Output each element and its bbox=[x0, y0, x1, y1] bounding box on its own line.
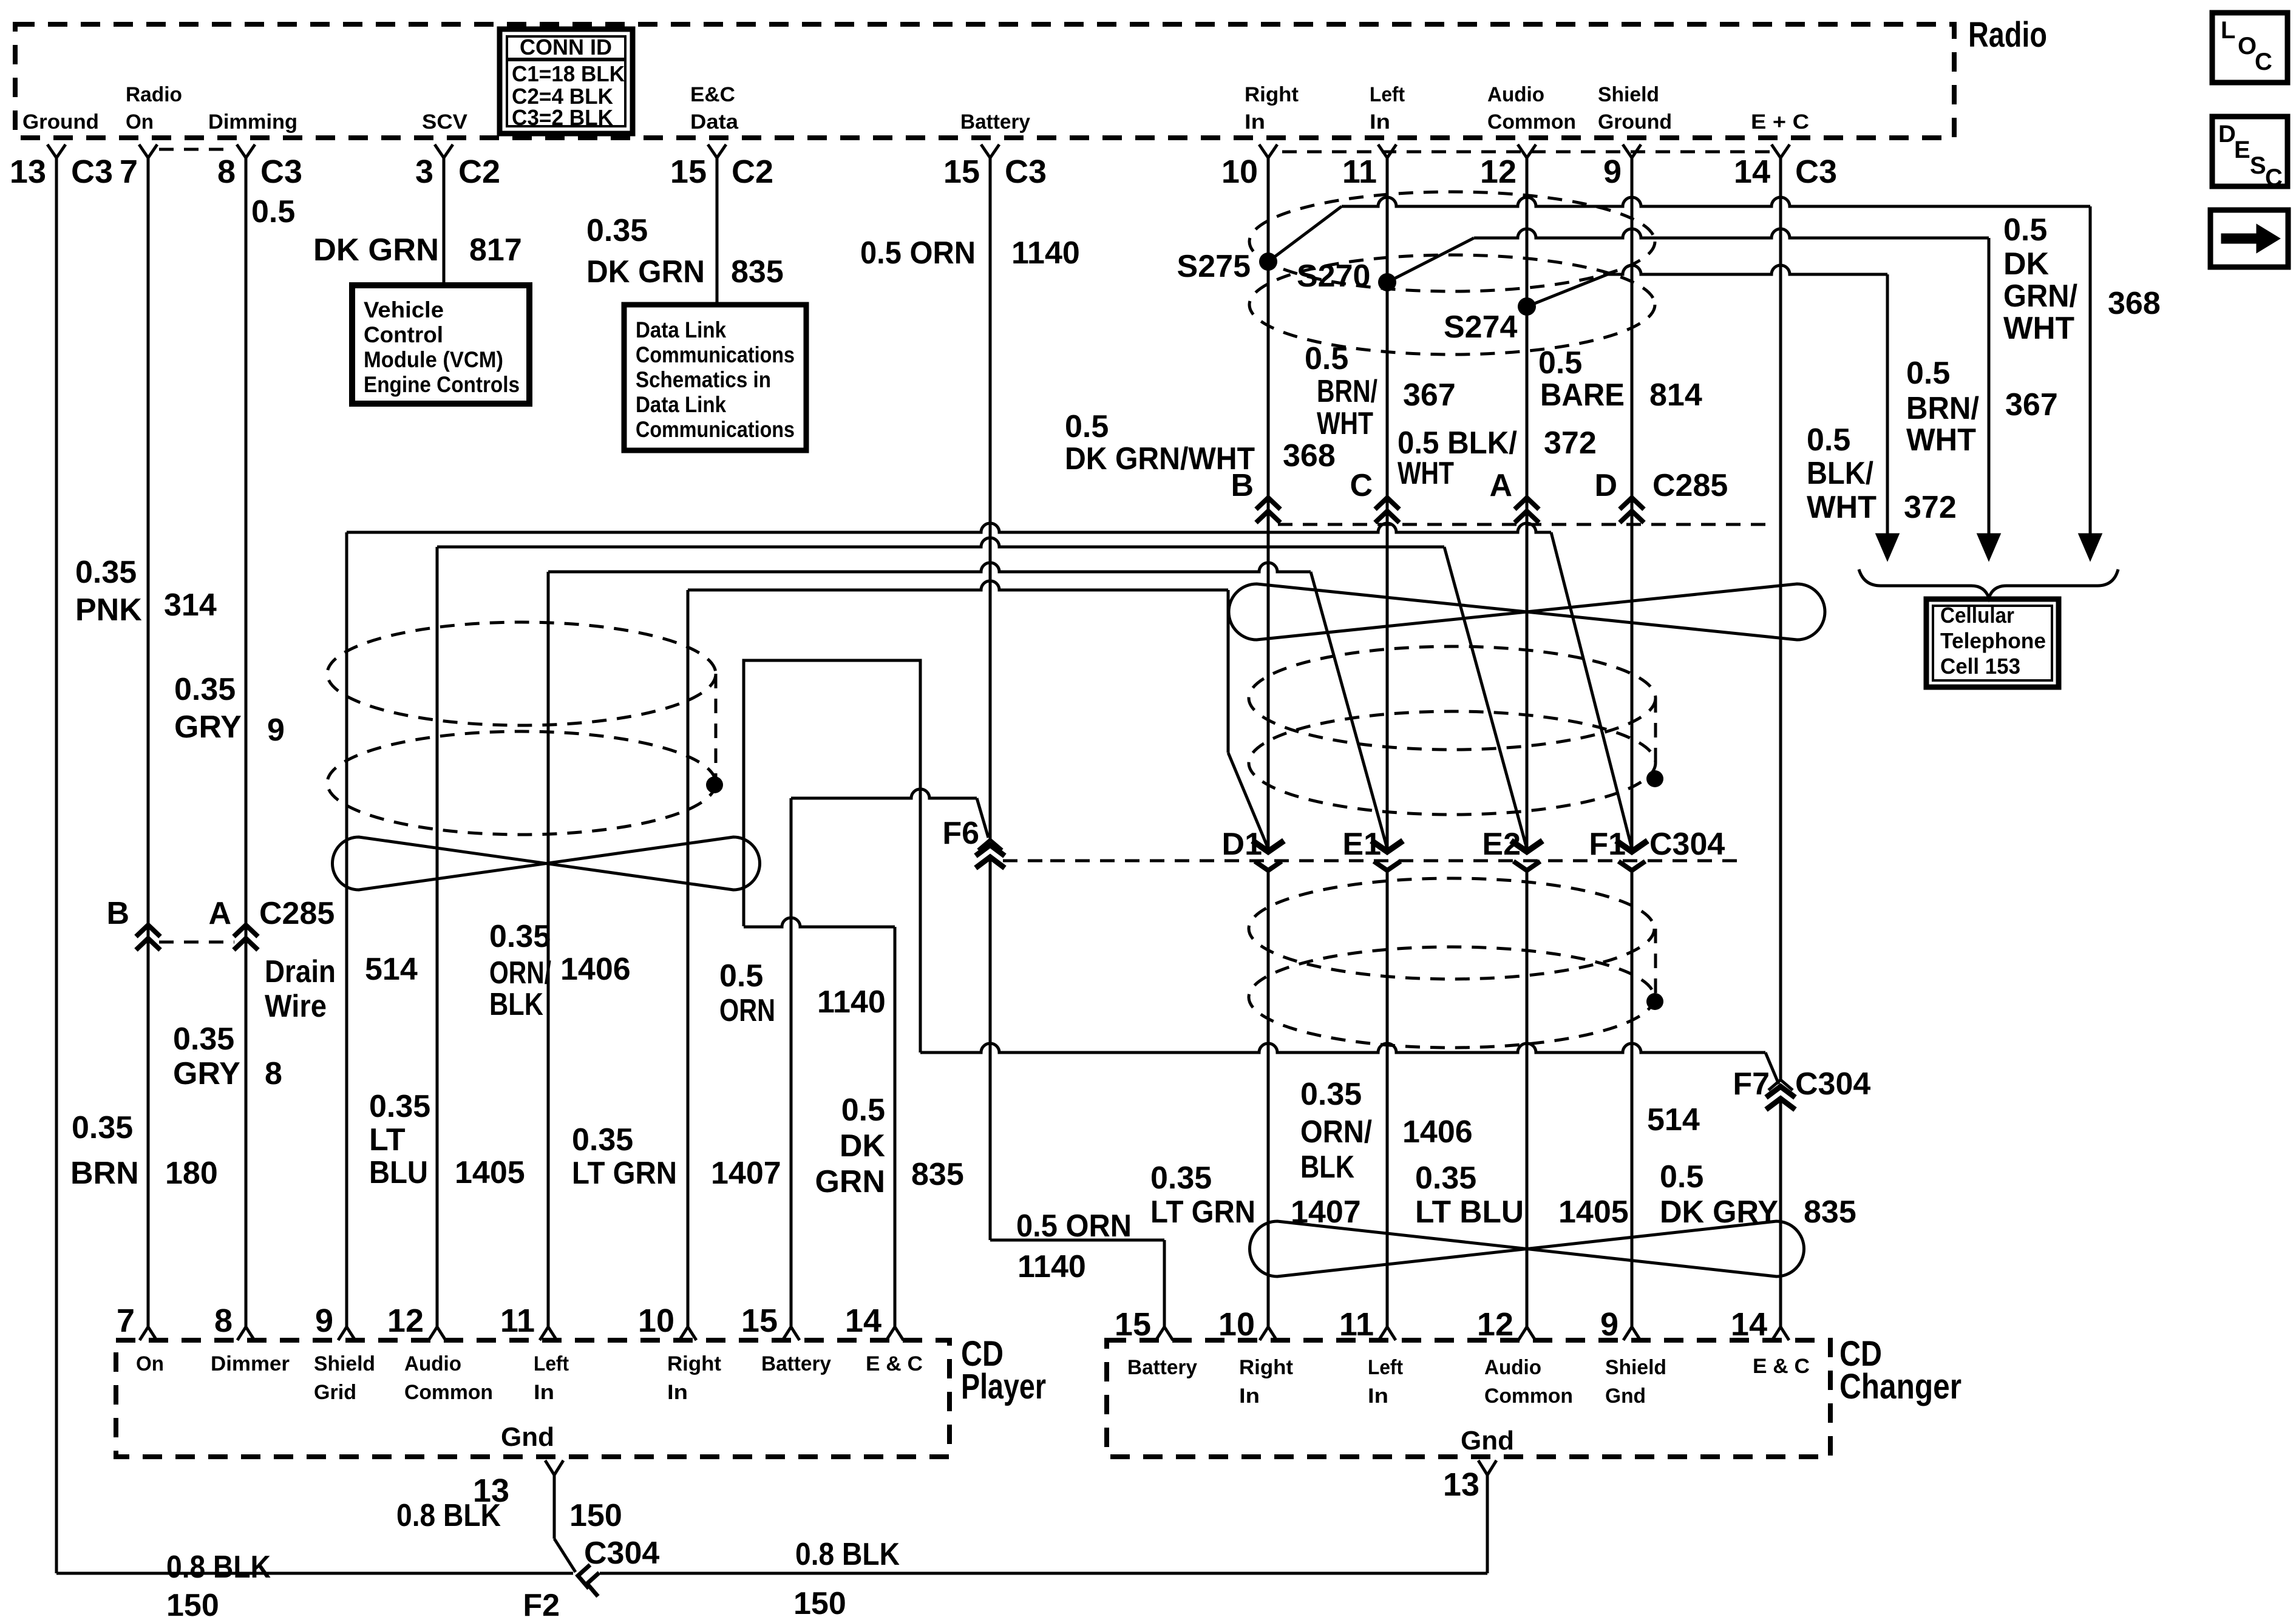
svg-text:1140: 1140 bbox=[1011, 236, 1080, 271]
radio pin 10 at x=2089 bbox=[1259, 144, 1277, 158]
svg-text:814: 814 bbox=[1649, 378, 1702, 413]
wire E&C Data 0.35 DK GRN 835 bbox=[716, 157, 719, 305]
connector F2 bbox=[578, 1565, 590, 1588]
svg-text:On: On bbox=[136, 1352, 164, 1375]
svg-text:GRN/: GRN/ bbox=[2003, 279, 2077, 314]
svg-text:DK: DK bbox=[2003, 246, 2050, 282]
svg-text:C2: C2 bbox=[732, 154, 773, 190]
bus right-in wire (1407) to CD pin 10 bbox=[688, 581, 1228, 590]
arrowhead BLK/WHT wire bbox=[1877, 534, 1898, 560]
svg-text:0.35: 0.35 bbox=[489, 919, 551, 954]
svg-text:7: 7 bbox=[117, 1303, 135, 1339]
svg-text:In: In bbox=[534, 1381, 554, 1404]
wire Radio On to CD pin 7 bbox=[147, 157, 150, 1327]
shield cylinder left (dashed) bbox=[327, 622, 716, 725]
svg-text:367: 367 bbox=[2005, 387, 2058, 422]
svg-text:Vehicle: Vehicle bbox=[364, 297, 444, 322]
svg-text:E & C: E & C bbox=[866, 1352, 923, 1375]
svg-text:DK: DK bbox=[840, 1128, 886, 1164]
twisted pair symbol (radio audio pair) bbox=[1229, 584, 1825, 640]
svg-text:368: 368 bbox=[2108, 286, 2161, 321]
svg-text:9: 9 bbox=[1603, 154, 1622, 190]
svg-text:A: A bbox=[1489, 468, 1512, 503]
connector C304 cavity E2 bbox=[1511, 841, 1543, 852]
svg-text:S: S bbox=[2250, 152, 2266, 179]
svg-text:E + C: E + C bbox=[1751, 110, 1809, 134]
svg-text:Changer: Changer bbox=[1839, 1367, 1961, 1406]
svg-text:Battery: Battery bbox=[1127, 1356, 1197, 1379]
svg-text:LT GRN: LT GRN bbox=[572, 1156, 677, 1191]
svg-text:14: 14 bbox=[1734, 154, 1770, 190]
brace over cellular telephone bbox=[1859, 569, 2118, 598]
svg-text:BLU: BLU bbox=[369, 1155, 428, 1190]
svg-text:11: 11 bbox=[1342, 154, 1377, 190]
CONN ID box bbox=[500, 29, 633, 134]
svg-text:8: 8 bbox=[217, 154, 236, 190]
svg-text:15: 15 bbox=[741, 1303, 778, 1339]
svg-text:9: 9 bbox=[315, 1303, 333, 1339]
splice S275 bbox=[1259, 253, 1277, 271]
svg-text:817: 817 bbox=[469, 232, 522, 268]
svg-text:0.5: 0.5 bbox=[1807, 422, 1850, 458]
wire left in C304 to CD changer bbox=[1386, 870, 1389, 1327]
svg-text:0.5: 0.5 bbox=[1906, 356, 1950, 391]
svg-text:CONN ID: CONN ID bbox=[520, 35, 612, 59]
CD player pin 15 bbox=[783, 1327, 800, 1340]
CD changer pin 9 bbox=[1623, 1327, 1640, 1340]
svg-text:GRY: GRY bbox=[174, 710, 242, 745]
svg-text:835: 835 bbox=[911, 1157, 964, 1192]
arrowhead DK GRN/WHT wire bbox=[2079, 534, 2101, 560]
wire E&C F7 to CD changer pin 14 bbox=[1779, 1099, 1782, 1327]
svg-text:Schematics in: Schematics in bbox=[636, 367, 771, 392]
svg-text:C285: C285 bbox=[259, 896, 335, 931]
svg-text:DK GRN: DK GRN bbox=[313, 232, 439, 268]
svg-text:1140: 1140 bbox=[817, 985, 886, 1020]
wire from S270 (0.5 BRN/WHT 367) bbox=[1387, 238, 1474, 282]
svg-text:Common: Common bbox=[404, 1381, 493, 1404]
connector F6 bbox=[978, 839, 1002, 850]
svg-text:Ground: Ground bbox=[22, 110, 99, 134]
svg-text:1406: 1406 bbox=[1402, 1114, 1473, 1150]
svg-text:Audio: Audio bbox=[1484, 1356, 1541, 1379]
svg-text:D1: D1 bbox=[1222, 827, 1262, 862]
radio pin 15 at x=1631 bbox=[981, 144, 999, 158]
svg-text:Shield: Shield bbox=[1598, 83, 1659, 106]
splice S270 bbox=[1378, 273, 1396, 291]
wire Ground 0.8 BLK 150 bbox=[55, 157, 58, 1573]
svg-text:14: 14 bbox=[845, 1303, 881, 1339]
wire audio common C304 to CD changer bbox=[1526, 870, 1529, 1327]
svg-text:0.5: 0.5 bbox=[251, 194, 295, 229]
CD Changer dashed box bbox=[1107, 1340, 1830, 1457]
svg-text:C1=18 BLK: C1=18 BLK bbox=[512, 61, 625, 86]
svg-text:314: 314 bbox=[164, 588, 217, 623]
svg-text:Data: Data bbox=[690, 110, 739, 134]
svg-text:368: 368 bbox=[1283, 438, 1336, 473]
svg-text:C285: C285 bbox=[1652, 468, 1728, 503]
svg-text:Gnd: Gnd bbox=[501, 1422, 554, 1452]
dashed connector tie pins 7-8 bbox=[159, 148, 233, 151]
bus left-in wire (1406) to CD pin 11 bbox=[548, 563, 1311, 572]
svg-text:8: 8 bbox=[214, 1303, 233, 1339]
svg-text:PNK: PNK bbox=[75, 592, 142, 628]
svg-text:10: 10 bbox=[1218, 1306, 1255, 1343]
svg-text:Common: Common bbox=[1487, 110, 1576, 134]
svg-text:Left: Left bbox=[534, 1352, 569, 1375]
connector C285 cavity B (radio on wire) bbox=[136, 925, 160, 937]
connector C285 cavity A bbox=[1515, 498, 1539, 509]
svg-text:372: 372 bbox=[1544, 425, 1597, 461]
svg-text:Shield: Shield bbox=[1605, 1356, 1666, 1379]
CD player pin 9 bbox=[338, 1327, 355, 1340]
svg-text:514: 514 bbox=[365, 952, 418, 987]
svg-text:Ground: Ground bbox=[1598, 110, 1672, 134]
svg-text:In: In bbox=[1368, 1385, 1388, 1408]
svg-text:14: 14 bbox=[1731, 1306, 1767, 1343]
svg-text:1140: 1140 bbox=[1017, 1249, 1086, 1284]
svg-text:12: 12 bbox=[1477, 1306, 1513, 1343]
svg-text:E1: E1 bbox=[1342, 827, 1381, 862]
svg-text:LT GRN: LT GRN bbox=[1150, 1195, 1255, 1230]
CD player pin 11 bbox=[540, 1327, 557, 1340]
svg-text:On: On bbox=[126, 110, 154, 134]
svg-text:15: 15 bbox=[670, 154, 707, 190]
svg-text:13: 13 bbox=[1443, 1466, 1479, 1503]
svg-text:S270: S270 bbox=[1297, 259, 1370, 294]
bus shield-grid wire (drain 514) to CD pin 9 bbox=[347, 523, 1551, 532]
svg-text:Dimming: Dimming bbox=[208, 110, 297, 134]
svg-text:0.5: 0.5 bbox=[1065, 409, 1109, 444]
svg-text:Dimmer: Dimmer bbox=[211, 1352, 290, 1375]
svg-text:Data Link: Data Link bbox=[636, 392, 726, 417]
CD player pin 8 bbox=[237, 1327, 254, 1340]
connector C304 cavity E1 bbox=[1371, 841, 1403, 852]
svg-text:10: 10 bbox=[638, 1303, 674, 1339]
wire CD player E&C branch (DK GRN 835) bbox=[744, 918, 895, 927]
svg-text:514: 514 bbox=[1647, 1102, 1700, 1137]
radio pin 12 at x=2515 bbox=[1518, 144, 1536, 158]
twisted pair symbol (CD player audio) bbox=[333, 837, 760, 890]
svg-text:Cell 153: Cell 153 bbox=[1940, 654, 2020, 679]
svg-text:C3=2 BLK: C3=2 BLK bbox=[512, 105, 613, 130]
shield cylinder bottom-right (dashed) bbox=[1249, 878, 1654, 979]
wire Right In radio to C285 bbox=[1267, 157, 1270, 850]
connector C285 left dashed line bbox=[159, 941, 234, 944]
svg-text:C304: C304 bbox=[584, 1536, 659, 1571]
svg-text:Communications: Communications bbox=[636, 342, 795, 367]
svg-text:15: 15 bbox=[1115, 1306, 1151, 1343]
svg-text:D: D bbox=[2218, 121, 2236, 147]
radio pin 8 at x=405 bbox=[237, 144, 255, 158]
box Data Link Communications bbox=[624, 305, 806, 450]
CD changer pin 15 bbox=[1156, 1327, 1173, 1340]
svg-text:Left: Left bbox=[1368, 1356, 1403, 1379]
svg-text:LT BLU: LT BLU bbox=[1415, 1195, 1524, 1230]
svg-text:0.35: 0.35 bbox=[173, 1022, 234, 1057]
E&C jumper bridge wire bbox=[744, 660, 920, 1053]
connector C304 cavity D1 bbox=[1252, 841, 1284, 852]
svg-text:1405: 1405 bbox=[1558, 1195, 1629, 1230]
svg-text:12: 12 bbox=[387, 1303, 424, 1339]
connector C285 cavity A (dimming wire) bbox=[234, 925, 258, 937]
svg-text:Right: Right bbox=[1239, 1356, 1293, 1379]
wire from S275 to cellular (0.5 DK GRN/WHT 368) bbox=[1268, 206, 1342, 262]
svg-text:SCV: SCV bbox=[422, 110, 467, 134]
svg-text:Gnd: Gnd bbox=[1605, 1385, 1646, 1408]
connector C304 dashed line bbox=[1050, 859, 1737, 863]
svg-text:Battery: Battery bbox=[761, 1352, 831, 1375]
svg-text:BRN: BRN bbox=[70, 1156, 139, 1191]
svg-text:0.8 BLK: 0.8 BLK bbox=[795, 1537, 900, 1572]
CD player pin 10 bbox=[679, 1327, 696, 1340]
connector F6 dashed line bbox=[1003, 859, 1048, 863]
svg-text:C2: C2 bbox=[458, 154, 500, 190]
svg-text:12: 12 bbox=[1480, 154, 1517, 190]
svg-text:A: A bbox=[208, 896, 231, 931]
svg-text:Module (VCM): Module (VCM) bbox=[364, 347, 503, 372]
svg-text:367: 367 bbox=[1403, 378, 1456, 413]
DESC reference box bbox=[2212, 117, 2288, 186]
svg-text:11: 11 bbox=[1339, 1306, 1374, 1343]
svg-text:0.5 ORN: 0.5 ORN bbox=[860, 236, 976, 271]
CD player pin 7 bbox=[140, 1327, 157, 1340]
svg-text:ORN/: ORN/ bbox=[1300, 1114, 1372, 1150]
CD changer pin 10 bbox=[1260, 1327, 1277, 1340]
svg-text:Gnd: Gnd bbox=[1461, 1426, 1514, 1456]
svg-text:Shield: Shield bbox=[314, 1352, 375, 1375]
svg-text:BLK: BLK bbox=[489, 987, 543, 1022]
svg-text:0.35: 0.35 bbox=[75, 555, 137, 590]
svg-text:In: In bbox=[1239, 1385, 1260, 1408]
svg-text:Engine Controls: Engine Controls bbox=[364, 372, 520, 397]
svg-text:835: 835 bbox=[1804, 1195, 1856, 1230]
wire Audio Common radio to C285 bbox=[1526, 157, 1529, 850]
svg-text:13: 13 bbox=[10, 154, 46, 190]
svg-text:0.5: 0.5 bbox=[1538, 345, 1582, 381]
radio pin 15 at x=1181 bbox=[708, 144, 726, 158]
twisted pair symbol (changer audio pair) bbox=[1250, 1221, 1804, 1276]
dashed connector tie pins 10-14 bbox=[1282, 151, 1773, 154]
svg-text:GRN: GRN bbox=[815, 1164, 885, 1199]
wire Shield Ground radio to C285 bbox=[1631, 157, 1634, 850]
svg-text:WHT: WHT bbox=[1317, 406, 1373, 441]
svg-text:ORN: ORN bbox=[719, 993, 775, 1028]
CD changer Gnd pin 13 bbox=[1478, 1460, 1496, 1475]
svg-text:1407: 1407 bbox=[1291, 1195, 1361, 1230]
svg-text:0.35: 0.35 bbox=[1300, 1077, 1362, 1112]
svg-text:O: O bbox=[2238, 33, 2257, 59]
svg-text:C304: C304 bbox=[1649, 827, 1725, 862]
svg-text:0.35: 0.35 bbox=[369, 1089, 430, 1124]
svg-text:C304: C304 bbox=[1795, 1066, 1870, 1102]
svg-text:7: 7 bbox=[120, 154, 138, 190]
svg-text:9: 9 bbox=[267, 713, 285, 748]
svg-text:GRY: GRY bbox=[173, 1056, 240, 1091]
left shield drain splice dot bbox=[706, 776, 723, 793]
svg-text:Audio: Audio bbox=[404, 1352, 461, 1375]
svg-text:0.5: 0.5 bbox=[1305, 341, 1348, 376]
svg-text:BRN/: BRN/ bbox=[1906, 391, 1979, 426]
wire bottom ground run bbox=[56, 1572, 573, 1575]
wire Battery 0.5 ORN 1140 upper bbox=[989, 157, 992, 839]
svg-text:0.5: 0.5 bbox=[719, 958, 763, 994]
CD changer pin 14 bbox=[1772, 1327, 1789, 1340]
CD changer pin 12 bbox=[1518, 1327, 1535, 1340]
connector C285 cavity D bbox=[1620, 498, 1644, 509]
svg-text:F6: F6 bbox=[942, 816, 979, 851]
CD player Gnd pin 13 bbox=[545, 1460, 563, 1475]
connector C304 cavity F1 bbox=[1616, 841, 1648, 852]
bottom-right shield splice dot bbox=[1646, 993, 1663, 1010]
bus audio-common wire (1405) to CD pin 12 bbox=[437, 538, 1444, 547]
radio connector dashed box bbox=[15, 24, 1954, 138]
svg-text:9: 9 bbox=[1600, 1306, 1618, 1343]
svg-text:Communications: Communications bbox=[636, 417, 795, 442]
svg-text:C: C bbox=[1350, 468, 1373, 503]
shield cylinder mid-right (dashed) bbox=[1249, 646, 1656, 750]
mid-right shield splice dot bbox=[1646, 770, 1663, 787]
svg-text:E&C: E&C bbox=[690, 83, 735, 106]
svg-text:BARE: BARE bbox=[1540, 378, 1625, 413]
svg-text:372: 372 bbox=[1904, 490, 1957, 525]
wire Dimming to CD pin 8 bbox=[245, 157, 248, 1327]
svg-text:F7: F7 bbox=[1733, 1066, 1770, 1102]
wire battery F6 to CD changer pin 15 bbox=[989, 857, 992, 1240]
svg-text:Player: Player bbox=[961, 1367, 1046, 1406]
svg-text:Wire: Wire bbox=[265, 989, 327, 1024]
svg-text:835: 835 bbox=[731, 254, 784, 290]
radio pin 7 at x=244 bbox=[139, 144, 157, 158]
splice S274 bbox=[1518, 297, 1536, 316]
svg-text:B: B bbox=[1231, 468, 1254, 503]
connector C285 cavity C bbox=[1375, 498, 1399, 509]
svg-text:0.35: 0.35 bbox=[72, 1110, 133, 1145]
svg-text:S275: S275 bbox=[1177, 249, 1251, 284]
svg-text:F1: F1 bbox=[1589, 827, 1626, 862]
svg-text:Battery: Battery bbox=[960, 110, 1030, 134]
LOC reference box bbox=[2212, 13, 2288, 83]
radio pin 14 at x=2933 bbox=[1771, 144, 1790, 158]
svg-text:Common: Common bbox=[1484, 1385, 1573, 1408]
svg-text:0.35: 0.35 bbox=[586, 213, 648, 248]
svg-text:In: In bbox=[1370, 110, 1390, 134]
radio pin 13 at x=93 bbox=[47, 144, 66, 158]
svg-text:C: C bbox=[2255, 49, 2272, 75]
wire SCV 0.5 DK GRN 817 bbox=[443, 157, 446, 285]
connector C285 cavity B bbox=[1256, 498, 1280, 509]
svg-text:ORN/: ORN/ bbox=[489, 955, 551, 991]
svg-text:1407: 1407 bbox=[711, 1156, 781, 1191]
svg-text:F2: F2 bbox=[523, 1588, 560, 1617]
wire E+C radio pin 14 to F7 bbox=[1779, 157, 1782, 1082]
radio pin 9 at x=2688 bbox=[1623, 144, 1641, 158]
svg-text:Data Link: Data Link bbox=[636, 317, 726, 342]
svg-text:Telephone: Telephone bbox=[1940, 628, 2046, 653]
svg-text:0.35: 0.35 bbox=[572, 1122, 633, 1158]
radio pin 3 at x=731 bbox=[435, 144, 453, 158]
wire CD player battery branch (ORN 1140) bbox=[791, 789, 977, 798]
arrowhead BRN/WHT wire bbox=[1978, 534, 2000, 560]
svg-text:C3: C3 bbox=[71, 154, 113, 190]
svg-text:Cellular: Cellular bbox=[1940, 603, 2014, 628]
svg-text:E & C: E & C bbox=[1753, 1355, 1810, 1378]
svg-text:WHT: WHT bbox=[1807, 490, 1877, 525]
svg-text:BRN/: BRN/ bbox=[1317, 374, 1377, 409]
svg-text:C3: C3 bbox=[1795, 154, 1837, 190]
svg-text:WHT: WHT bbox=[2003, 311, 2074, 346]
svg-text:3: 3 bbox=[415, 154, 433, 190]
svg-text:C3: C3 bbox=[260, 154, 302, 190]
svg-text:Grid: Grid bbox=[314, 1381, 356, 1404]
svg-text:0.5: 0.5 bbox=[2003, 212, 2047, 248]
svg-text:Control: Control bbox=[364, 322, 443, 347]
svg-text:B: B bbox=[106, 896, 129, 931]
svg-text:Right: Right bbox=[1245, 83, 1299, 106]
box Vehicle Control Module (VCM) bbox=[352, 285, 529, 404]
svg-text:E: E bbox=[2234, 137, 2250, 163]
CD Player dashed box bbox=[116, 1340, 949, 1457]
svg-text:150: 150 bbox=[569, 1498, 622, 1533]
svg-text:0.35: 0.35 bbox=[174, 672, 236, 707]
wire right in C304 to CD changer bbox=[1267, 870, 1270, 1327]
svg-text:WHT: WHT bbox=[1906, 422, 1976, 458]
svg-text:15: 15 bbox=[943, 154, 980, 190]
svg-text:Radio: Radio bbox=[1968, 15, 2047, 55]
svg-text:0.5 ORN: 0.5 ORN bbox=[1016, 1209, 1132, 1244]
wire Left In radio to C285 bbox=[1386, 157, 1389, 850]
svg-text:S274: S274 bbox=[1444, 310, 1518, 345]
wire shield gnd C304 to CD changer bbox=[1631, 870, 1634, 1327]
radio pin 11 at x=2285 bbox=[1378, 144, 1396, 158]
svg-text:10: 10 bbox=[1221, 154, 1258, 190]
CD changer pin 11 bbox=[1379, 1327, 1396, 1340]
connector C285 dashed line bbox=[1278, 523, 1767, 526]
svg-text:Radio: Radio bbox=[126, 83, 182, 106]
CD player pin 14 bbox=[886, 1327, 903, 1340]
svg-text:BLK: BLK bbox=[1300, 1150, 1354, 1185]
svg-text:DK GRN/WHT: DK GRN/WHT bbox=[1065, 441, 1255, 476]
wire from S274 (0.5 BLK/WHT 372) bbox=[1527, 274, 1608, 307]
svg-text:D: D bbox=[1594, 468, 1617, 503]
shield cylinder around S270/S274 (dashed) bbox=[1249, 192, 1655, 291]
CD player pin 12 bbox=[429, 1327, 446, 1340]
svg-text:1405: 1405 bbox=[455, 1155, 525, 1190]
svg-text:0.5: 0.5 bbox=[841, 1093, 885, 1128]
svg-text:DK GRN: DK GRN bbox=[586, 254, 705, 290]
svg-text:E2: E2 bbox=[1482, 827, 1521, 862]
svg-text:150: 150 bbox=[166, 1588, 219, 1617]
svg-text:L: L bbox=[2221, 17, 2235, 44]
svg-text:Right: Right bbox=[667, 1352, 721, 1375]
svg-text:8: 8 bbox=[265, 1056, 282, 1091]
svg-text:0.35: 0.35 bbox=[1150, 1161, 1212, 1196]
svg-text:1406: 1406 bbox=[560, 952, 631, 987]
arrow reference box bbox=[2210, 210, 2288, 267]
connector F7 bbox=[1768, 1080, 1793, 1090]
svg-text:180: 180 bbox=[165, 1156, 218, 1191]
svg-text:Drain: Drain bbox=[265, 954, 336, 989]
svg-text:11: 11 bbox=[500, 1303, 535, 1339]
svg-text:Audio: Audio bbox=[1487, 83, 1544, 106]
svg-text:In: In bbox=[1245, 110, 1265, 134]
box Cellular Telephone Cell 153 bbox=[1926, 599, 2059, 687]
svg-text:WHT: WHT bbox=[1398, 456, 1454, 491]
svg-text:Left: Left bbox=[1370, 83, 1405, 106]
svg-text:DK GRY: DK GRY bbox=[1660, 1195, 1778, 1230]
svg-text:150: 150 bbox=[793, 1586, 846, 1617]
svg-text:0.8 BLK: 0.8 BLK bbox=[396, 1498, 501, 1533]
